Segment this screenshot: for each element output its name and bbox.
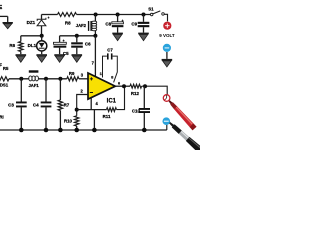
svg-text:R5: R5 [3, 66, 9, 71]
svg-text:R6: R6 [9, 43, 15, 48]
svg-text:C10: C10 [132, 108, 141, 113]
svg-text:R12: R12 [131, 91, 140, 96]
svg-text:+: + [48, 16, 50, 20]
svg-text:C8: C8 [105, 22, 111, 27]
svg-text:S1: S1 [148, 7, 154, 12]
svg-text:6: 6 [118, 82, 120, 86]
svg-text:RI: RI [0, 115, 4, 120]
svg-text:DS1: DS1 [0, 83, 9, 88]
svg-text:C5: C5 [63, 51, 69, 56]
svg-text:DL1: DL1 [28, 43, 37, 48]
svg-text:JAF1: JAF1 [28, 83, 39, 88]
svg-text:C9: C9 [131, 22, 137, 27]
svg-text:E: E [0, 5, 3, 11]
svg-text:R7: R7 [64, 103, 70, 108]
svg-text:C7: C7 [107, 47, 113, 52]
svg-text:C3: C3 [8, 102, 14, 107]
svg-text:C6: C6 [85, 41, 91, 46]
svg-text:9 VOLT: 9 VOLT [159, 33, 175, 38]
svg-text:R9: R9 [69, 71, 75, 76]
svg-text:R11: R11 [103, 114, 111, 119]
svg-text:DZ1: DZ1 [27, 20, 36, 25]
svg-text:JAF2: JAF2 [76, 23, 87, 28]
svg-text:R8: R8 [65, 20, 71, 25]
svg-text:R10: R10 [64, 119, 73, 124]
svg-text:C4: C4 [33, 102, 39, 107]
svg-text:IC1: IC1 [107, 98, 117, 104]
